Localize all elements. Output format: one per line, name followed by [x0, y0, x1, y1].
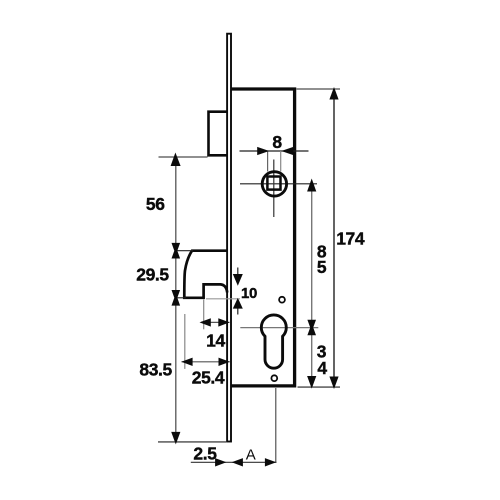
bottom fixing hole — [271, 375, 277, 381]
arrow 2.5 left — [215, 458, 226, 466]
arrow A right — [265, 458, 276, 466]
svg-text:29.5: 29.5 — [136, 264, 169, 284]
wire: ext line square left — [267, 151, 269, 172]
wire: extension latch top — [176, 250, 193, 252]
faceplate — [227, 34, 231, 442]
svg-text:174: 174 — [336, 229, 365, 249]
wire: spindle vertical centerline — [273, 160, 275, 218]
svg-text:25.4: 25.4 — [192, 367, 225, 387]
svg-text:A: A — [246, 446, 256, 463]
arrow 14 right — [218, 318, 229, 326]
arrow 56 up — [171, 153, 181, 167]
wire: dim line 25.4 — [182, 361, 230, 363]
wire: spindle horizontal centerline — [240, 183, 317, 185]
wire: extension line top rect bottom — [159, 156, 208, 158]
svg-text:4: 4 — [317, 358, 327, 378]
arrow 10 up — [233, 298, 243, 309]
svg-text:14: 14 — [206, 330, 225, 350]
arrow 174 down — [329, 377, 338, 390]
svg-text:83.5: 83.5 — [139, 360, 172, 380]
svg-text:56: 56 — [146, 194, 165, 214]
wire: ext line square right — [280, 151, 282, 172]
arrow 34 down — [307, 376, 316, 389]
arrow hourglass latch top — [172, 243, 181, 259]
wire: ext line step edge — [203, 300, 205, 330]
wire: dim line 56 / 29.5 / 83.5 — [175, 157, 177, 442]
arrow 8 left — [257, 147, 269, 155]
spindle hub circle — [262, 172, 286, 196]
wire: ext line latch left — [184, 314, 186, 369]
wire: 10-dim upper tail — [237, 268, 239, 275]
wire: dim line 8 (spindle square) — [240, 150, 309, 152]
arrow 10 down — [233, 274, 243, 286]
wire: extension body top right — [297, 88, 341, 90]
arrow 174 up — [329, 87, 338, 100]
wire: dim line 174 — [333, 89, 335, 387]
wire: extension latch bottom — [176, 297, 186, 299]
arrow hourglass cylinder center — [307, 320, 316, 336]
svg-text:2.5: 2.5 — [193, 443, 217, 463]
svg-text:5: 5 — [317, 257, 327, 277]
wire: extension faceplate bottom — [158, 441, 226, 443]
wire: dim line 85 / 34 — [311, 184, 313, 386]
latch bolt — [184, 251, 227, 298]
wire: extension body bottom right — [298, 386, 341, 388]
wire: dim line 14 — [201, 321, 230, 323]
arrow 85 up — [307, 179, 316, 192]
wire: cylinder vertical extension — [275, 388, 277, 462]
spindle square hole 8mm — [267, 177, 280, 190]
euro cylinder hole — [261, 315, 286, 368]
arrow 2.5 right — [232, 458, 243, 466]
screw hole — [279, 297, 285, 303]
wire: 10-dim lower tail — [237, 308, 239, 314]
wire: latch bottom ext through faceplate — [206, 298, 240, 300]
svg-text:10: 10 — [241, 285, 257, 302]
arrow hourglass latch bottom — [172, 290, 181, 306]
arrow 83.5 down — [171, 432, 180, 445]
wire: bottom dim line 2.5 / A — [191, 461, 277, 463]
arrow 14 left — [200, 318, 211, 326]
lock body — [231, 89, 295, 386]
wire: cylinder horizontal centerline — [240, 327, 318, 329]
arrow 25.4 left — [181, 358, 192, 366]
top latch guide rectangle — [209, 112, 227, 156]
svg-text:8: 8 — [272, 132, 282, 152]
arrow 25.4 right — [219, 358, 230, 366]
arrow 8 right — [281, 147, 293, 155]
